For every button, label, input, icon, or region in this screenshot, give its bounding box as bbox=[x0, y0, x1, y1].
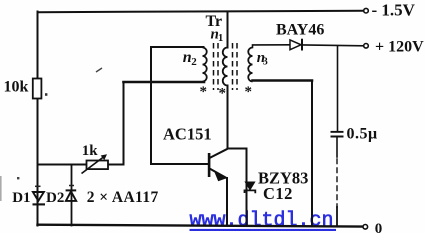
svg-text:1: 1 bbox=[218, 33, 223, 44]
svg-text:D2: D2 bbox=[46, 190, 64, 206]
svg-text:1k: 1k bbox=[82, 143, 99, 159]
svg-text:0: 0 bbox=[375, 221, 383, 233]
svg-text:0.5μ: 0.5μ bbox=[347, 125, 378, 142]
svg-text:+ 120V: + 120V bbox=[375, 39, 424, 56]
svg-text:2 × AA117: 2 × AA117 bbox=[87, 189, 159, 206]
svg-text:- 1.5V: - 1.5V bbox=[372, 1, 416, 20]
svg-text:BAY46: BAY46 bbox=[276, 22, 324, 39]
svg-text:*: * bbox=[245, 84, 253, 100]
svg-text:D1: D1 bbox=[12, 190, 30, 206]
svg-text:C12: C12 bbox=[263, 184, 293, 203]
svg-text:3: 3 bbox=[263, 57, 268, 68]
svg-text:10k: 10k bbox=[4, 79, 29, 96]
svg-text:AC151: AC151 bbox=[163, 125, 212, 144]
svg-text:*: * bbox=[219, 86, 227, 102]
svg-text:*: * bbox=[200, 84, 208, 100]
svg-text:2: 2 bbox=[191, 56, 197, 68]
